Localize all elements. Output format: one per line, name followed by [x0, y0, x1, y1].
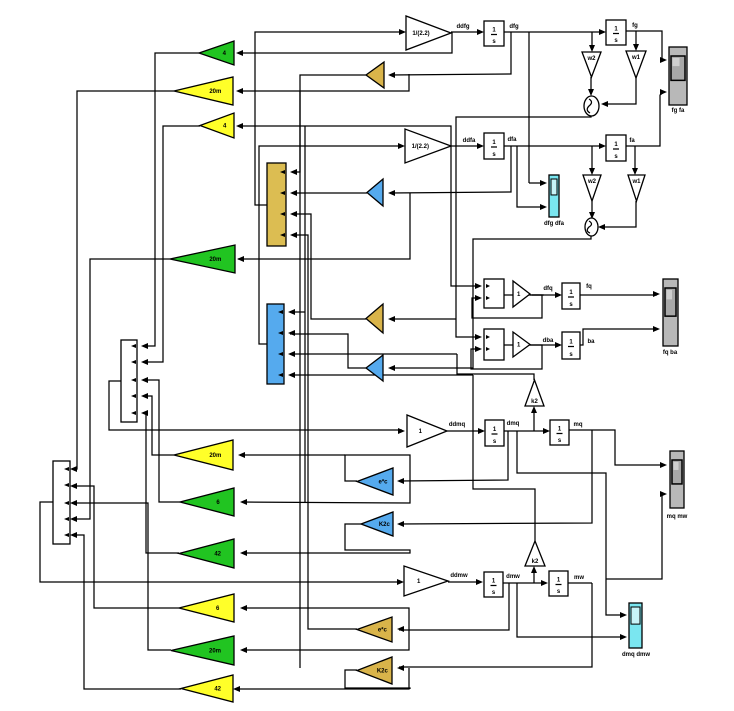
gain T7 olive: [366, 304, 383, 333]
wire dmq branch to blue T15 in: [399, 431, 508, 481]
wire dmq to integrator mq: [504, 430, 548, 432]
svg-text:mq mw: mq mw: [667, 514, 688, 520]
display dmq dmw: [629, 603, 642, 648]
gain T4 green 20m: [170, 245, 235, 273]
wire mq branch to blue T16 in: [399, 430, 592, 524]
wire mux1 output to gain 1/(2.2) fg: [255, 32, 404, 205]
arrow into fq mux in1: [475, 283, 482, 289]
wire w2 row2 out to product2: [591, 201, 593, 216]
wire blue T8 out to blue mux in2: [290, 334, 366, 368]
wire dfg branch down: [528, 32, 530, 183]
wire ba to scope2 in2: [579, 329, 657, 345]
wire T15 out loop to T10 in: [242, 455, 410, 503]
svg-text:e*c: e*c: [378, 628, 388, 634]
scope mq mw: [670, 451, 684, 508]
wire dfg branch to T2 input: [240, 74, 409, 91]
svg-text:20m: 20m: [209, 453, 221, 459]
gain T8 blue: [366, 355, 383, 381]
wire dfg branch to olive gain T5: [390, 32, 511, 75]
wire to scope3 in2: [606, 494, 664, 579]
wire T9 in: [240, 454, 345, 456]
wire T13 out to mux4 in3: [72, 503, 171, 650]
gain k2 U2: [525, 541, 545, 566]
wire mux4 out to gain 1 mw: [40, 502, 402, 582]
svg-text:20m: 20m: [209, 649, 221, 655]
gain T12 yellow 6: [179, 594, 234, 622]
wire ddmq to integrator: [447, 430, 483, 432]
gain T17 olive e*c: [357, 617, 392, 642]
wire mq to scope3 in1: [569, 430, 664, 465]
svg-text:ddfa: ddfa: [463, 138, 476, 144]
wire dfg to integrator fg: [504, 31, 604, 33]
svg-text:ddfg: ddfg: [457, 24, 470, 30]
wire ddfg to integrator: [451, 31, 482, 33]
gain T10 green 6: [180, 488, 234, 516]
wire gain T1 out to mux3 in1: [143, 53, 199, 346]
wire fa up to scope in2: [626, 92, 664, 146]
wire dmw branch to k2 U2: [533, 569, 535, 583]
wire mw out: [567, 582, 592, 584]
svg-text:fq ba: fq ba: [663, 350, 678, 356]
wire T12 out to mux4 in2: [72, 486, 179, 608]
svg-text:K2c: K2c: [377, 669, 389, 675]
wire T14 out to mux4 in5: [72, 535, 181, 689]
integrator mq: [550, 420, 569, 445]
wire dfa branch to blue gain T6: [390, 146, 511, 193]
svg-text:dba: dba: [543, 338, 554, 344]
wire mw branch to olive T18 in: [399, 583, 592, 667]
wire product out down to ba mux in1: [456, 116, 591, 337]
wire fq feedback to mux in2: [472, 295, 542, 318]
svg-text:20m: 20m: [209, 89, 221, 95]
svg-text:dmq: dmq: [507, 421, 520, 427]
gain T14 yellow 42: [181, 675, 233, 702]
wire fg branch to w1: [635, 31, 637, 49]
integrator fg: [606, 20, 626, 45]
svg-text:e*c: e*c: [378, 480, 388, 486]
wire k2 U1 out up: [457, 354, 534, 380]
mux4 white lower-left: [53, 461, 70, 544]
wire ddmw to integrator: [448, 581, 481, 583]
gain 1 mw: [404, 566, 448, 596]
wire T16 out loop to T11 in: [242, 524, 410, 553]
wire branch to olive gain T7: [390, 318, 456, 320]
gain T6 blue: [367, 179, 383, 206]
wire mw branch to T14 input: [235, 668, 409, 689]
gain T18 olive K2c: [357, 657, 392, 684]
wire dfa-node branch to T3 input and fq mux in1: [240, 126, 476, 286]
wire w1 out to product right: [604, 78, 636, 104]
svg-text:ba: ba: [587, 339, 595, 345]
wire k2 U2 out to blue mux in4: [290, 374, 473, 376]
svg-text:1/(2.2): 1/(2.2): [412, 144, 429, 150]
mux tan: [267, 163, 286, 246]
svg-text:dmw: dmw: [506, 574, 520, 580]
svg-text:mq: mq: [574, 422, 583, 428]
wire dmw to display2 in2: [517, 583, 624, 637]
product circle row2: [585, 218, 598, 236]
svg-text:ddmq: ddmq: [449, 422, 466, 428]
svg-text:fq: fq: [586, 284, 592, 290]
wire ddfg branch to gain T1: [238, 32, 452, 53]
integrator dmq: [485, 420, 504, 446]
wire gain T3 out to mux3 in2: [143, 126, 200, 362]
svg-text:w2: w2: [586, 56, 596, 62]
wire dmw to integrator mw: [503, 582, 546, 584]
wire gain T2 out to mux4 in1: [72, 91, 174, 469]
wire T10 out to mux3 in3: [143, 380, 180, 502]
wire k2 U2 out up: [473, 375, 535, 541]
svg-text:42: 42: [214, 687, 221, 693]
wire dmw branch to T12 in: [242, 608, 409, 630]
svg-text:dfg: dfg: [509, 24, 519, 30]
wire w1 row2 out to product2: [601, 201, 636, 227]
svg-text:mw: mw: [574, 575, 584, 581]
wire T11 out to mux3 in5: [143, 413, 179, 553]
gain 1/(2.2) fa: [405, 129, 451, 163]
svg-text:ddmw: ddmw: [450, 573, 468, 579]
wire dfa branch to display in2: [517, 146, 544, 207]
gain T5 olive: [366, 62, 384, 88]
integrator fq: [562, 283, 580, 309]
wire ba feedback to mux in2: [471, 345, 542, 369]
wire stub to blue mux in1: [290, 311, 305, 313]
wire dmq to display2 in1: [517, 431, 624, 615]
wire product2 out to blue gain T8: [390, 236, 591, 368]
svg-text:K2c: K2c: [379, 522, 391, 528]
display dfg dfa: [549, 175, 559, 217]
svg-text:fa: fa: [629, 138, 635, 144]
svg-text:dfa: dfa: [508, 137, 518, 143]
gain T16 blue K2c: [361, 512, 393, 536]
wire fq to scope2 in1: [580, 294, 657, 296]
svg-text:w1: w1: [631, 179, 641, 185]
wire gain T4 out to mux4 in4: [72, 259, 170, 519]
wire dfa branch to w2 row2: [591, 146, 593, 173]
svg-text:k2: k2: [531, 399, 538, 405]
integrator dfa: [484, 133, 504, 159]
wire: [532, 294, 544, 296]
svg-text:dfq: dfq: [543, 286, 553, 292]
wire fa branch to w1 row2: [634, 146, 636, 173]
wire T9 out to mux3 in4: [143, 396, 174, 455]
wire fg to scope in1: [626, 31, 664, 60]
gain T3 yellow 4: [200, 113, 234, 138]
wire dfg branch to w2: [591, 32, 593, 50]
integrator dfg: [484, 21, 504, 46]
mux ba 2-input: [484, 329, 504, 360]
wire blue T6 out to tan mux in2: [292, 192, 367, 194]
scope fq ba: [663, 279, 678, 346]
gain T1 green 4: [199, 41, 234, 65]
mux fq 2-input: [484, 279, 504, 308]
gain w2 row2: [583, 175, 601, 201]
wire olive T5 out to tan mux in1: [292, 75, 366, 172]
wire mux2 output to gain 1/(2.2) fa: [259, 146, 403, 344]
gain T11 green 42: [179, 539, 234, 568]
wire branch down to T15 loop line: [304, 126, 306, 502]
svg-text:dfg dfa: dfg dfa: [544, 221, 565, 227]
svg-text:20m: 20m: [209, 257, 221, 263]
wire olive T17 out to tan mux in4: [292, 235, 357, 629]
svg-text:k2: k2: [532, 559, 539, 565]
gain T9 yellow 20m: [174, 440, 233, 470]
integrator dmw: [484, 572, 503, 597]
wire dmw branch to olive T17 in: [399, 583, 509, 630]
gain w2 row1: [582, 52, 601, 77]
gain w1 row2: [628, 175, 645, 201]
svg-text:w2: w2: [587, 179, 597, 185]
scope fg fa: [669, 47, 687, 105]
wire k2 U1 out to blue mux in3: [290, 353, 457, 355]
gain T13 green 20m: [171, 636, 234, 665]
wire dfa to integrator fa: [504, 145, 603, 147]
wire olive T7 out to tan mux in3: [292, 214, 366, 319]
svg-text:fg: fg: [632, 23, 638, 29]
gain k2 U1: [525, 380, 544, 406]
integrator fa: [606, 135, 626, 161]
wire T18 out loop down: [345, 670, 410, 689]
svg-text:w1: w1: [631, 55, 641, 61]
product circle row1: [584, 96, 599, 116]
wire ddfa to integrator: [451, 145, 482, 147]
svg-text:1/(2.2): 1/(2.2): [412, 31, 429, 37]
gain 1/(2.2) fg: [406, 16, 451, 50]
gain T15 blue e*c: [357, 468, 393, 495]
gain fq small: [513, 281, 530, 307]
mux blue: [267, 304, 284, 384]
wire dmw branch to T13 in: [242, 630, 409, 650]
wire dmq branch to k2 U1: [533, 409, 535, 431]
gain w1 row1: [626, 51, 646, 78]
wire w2 out to product: [590, 77, 592, 93]
mux3 white upper-left: [121, 340, 137, 422]
wire gain to integrator fq: [504, 294, 560, 296]
svg-text:fg fa: fg fa: [672, 108, 685, 114]
integrator ba: [562, 332, 580, 359]
svg-text:42: 42: [214, 552, 221, 558]
gain ba small: [513, 332, 530, 357]
gain T2 yellow 20m: [174, 77, 233, 105]
gain 1 mq: [407, 415, 447, 447]
wire branch down to mw line: [299, 91, 301, 668]
integrator mw: [549, 571, 568, 596]
svg-text:dmq dmw: dmq dmw: [622, 652, 650, 658]
wire dfa branch to gain T4 input: [238, 193, 410, 259]
wire mux3 out to gain 1 mq: [109, 381, 402, 430]
wire gain to integrator ba: [504, 344, 560, 346]
wire branch to display in1: [529, 182, 544, 184]
